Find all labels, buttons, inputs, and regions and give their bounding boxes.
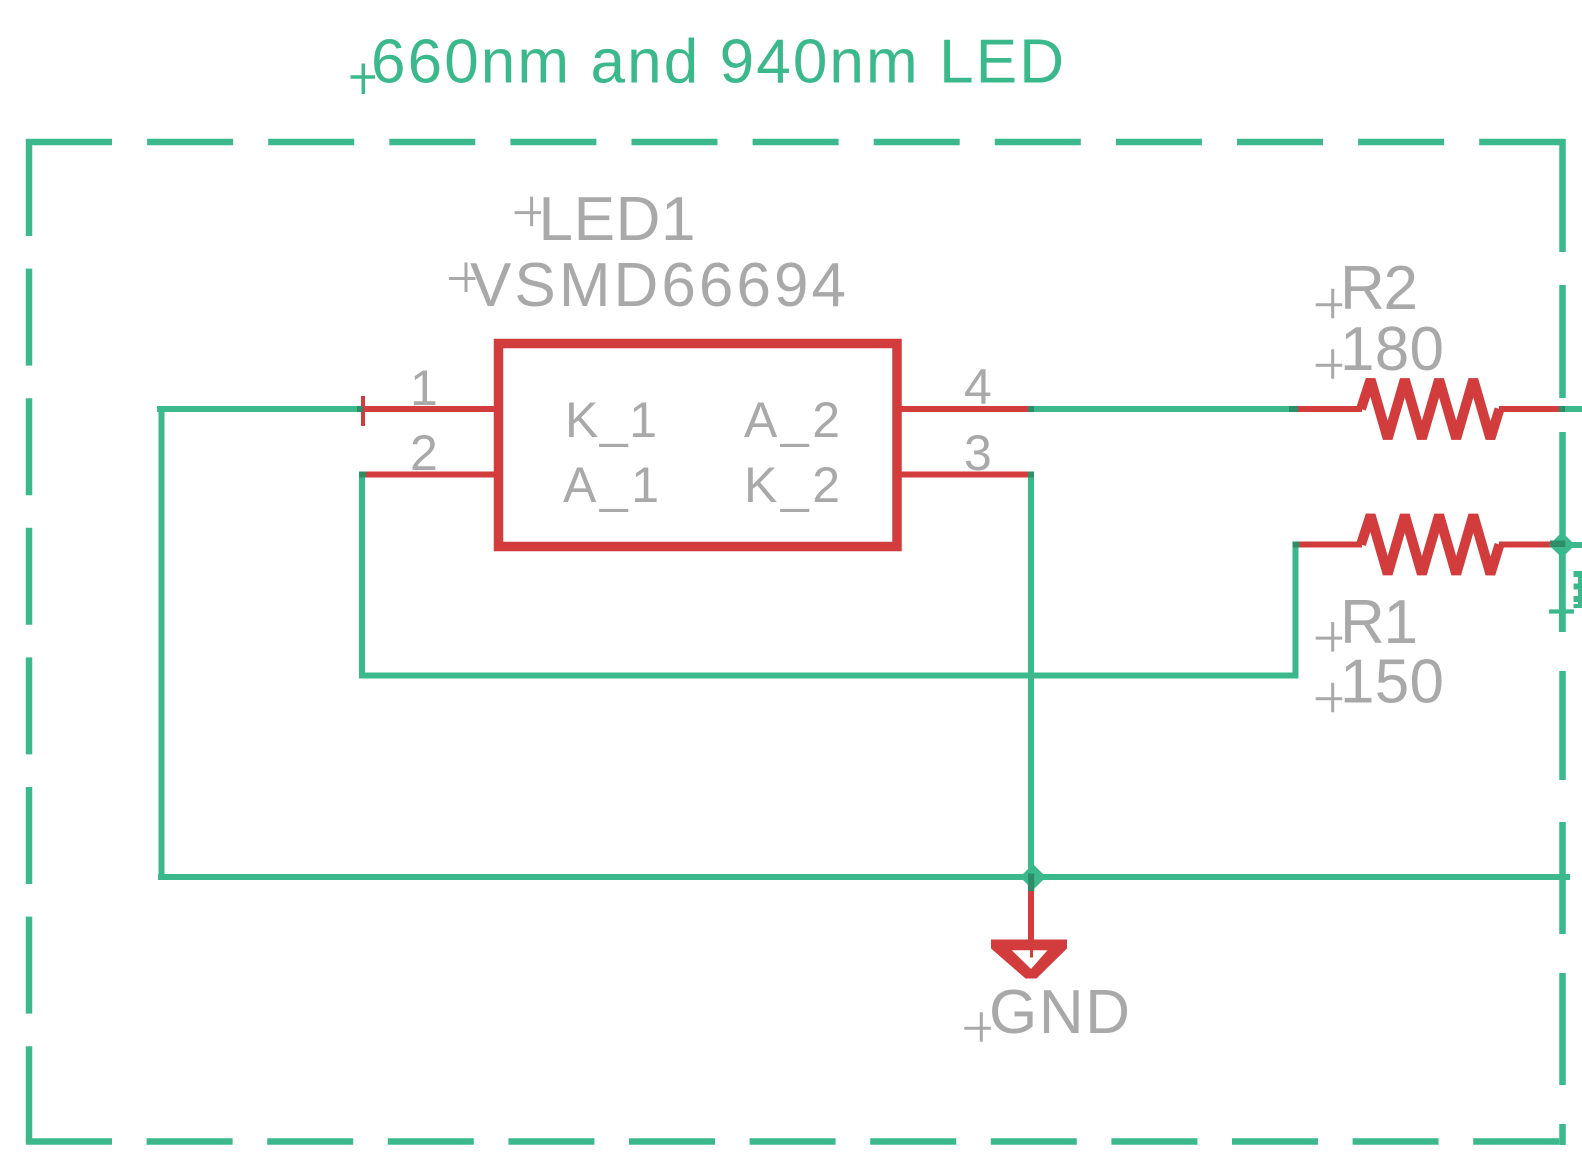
resistor R1 left lead xyxy=(1295,542,1362,548)
LED1 pin 4 wire xyxy=(897,406,1028,412)
wire pin2 vertical xyxy=(359,475,365,676)
wire up to R1 xyxy=(1293,545,1299,679)
wire pin1 to left rail xyxy=(157,406,363,412)
wire R1 junction to edge xyxy=(1562,542,1582,548)
wire net label stub xyxy=(1559,545,1565,632)
wire bottom rail horizontal xyxy=(158,874,1570,880)
LED1 pin 3 wire xyxy=(897,472,1033,478)
svg-text:2: 2 xyxy=(410,425,438,481)
ground wire stub xyxy=(1028,891,1034,944)
R1 value cross xyxy=(1316,683,1343,713)
R2 name cross xyxy=(1316,289,1343,319)
LED1 body rectangle xyxy=(499,344,898,547)
svg-text:K_1: K_1 xyxy=(565,392,657,448)
frame border right edge xyxy=(1559,139,1566,1145)
svg-text:3: 3 xyxy=(964,425,992,481)
net label cross xyxy=(1549,596,1574,628)
resistor R1 zigzag xyxy=(1361,515,1500,574)
svg-text:660nm and 940nm LED: 660nm and 940nm LED xyxy=(371,28,1064,97)
svg-text:1: 1 xyxy=(410,360,438,416)
wire overlap mark R2 left xyxy=(1289,406,1298,412)
junction dot on bottom rail xyxy=(1020,864,1046,890)
wire left rail vertical xyxy=(159,409,165,877)
title origin cross xyxy=(351,64,376,95)
ground symbol triangle inner xyxy=(1010,949,1049,970)
wire R2 right to edge xyxy=(1559,406,1582,412)
frame border left edge xyxy=(26,139,33,1145)
junction R1 overlap dark xyxy=(1550,541,1565,548)
svg-text:4: 4 xyxy=(964,359,992,415)
resistor R2 right lead xyxy=(1499,406,1562,412)
GND label cross xyxy=(964,1012,991,1042)
resistor R1 right lead xyxy=(1499,542,1559,548)
junction overlap dark xyxy=(1028,874,1034,892)
LED1 pin 2 wire xyxy=(364,472,498,478)
resistor R2 left lead xyxy=(1292,406,1362,412)
LED1 pin 1 connection cross xyxy=(361,396,365,426)
wire overlap mark R1 left xyxy=(1293,542,1300,548)
wire overlap mark pin1 xyxy=(357,406,363,412)
svg-text:180: 180 xyxy=(1340,315,1444,384)
frame border bottom edge xyxy=(26,1138,1560,1145)
net label partial text xyxy=(1574,571,1582,608)
resistor R2 zigzag xyxy=(1361,380,1500,439)
wire overlap mark R2 right xyxy=(1559,406,1565,412)
wire pin4 to R2 xyxy=(1028,406,1292,412)
svg-text:LED1: LED1 xyxy=(539,185,696,254)
svg-text:K_2: K_2 xyxy=(744,457,840,513)
svg-text:150: 150 xyxy=(1340,647,1444,716)
wire pin2 horizontal xyxy=(359,673,1299,679)
wire overlap mark pin3 xyxy=(1028,472,1034,478)
LED1 name cross xyxy=(515,197,542,227)
junction diamond R1 net xyxy=(1549,532,1575,558)
LED1 value cross xyxy=(449,263,476,293)
svg-text:A_1: A_1 xyxy=(563,457,659,513)
wire overlap mark pin2 xyxy=(359,472,366,478)
wire pin3 vertical xyxy=(1028,475,1034,892)
svg-text:VSMD66694: VSMD66694 xyxy=(470,251,846,320)
svg-text:R2: R2 xyxy=(1340,254,1418,323)
R2 value cross xyxy=(1316,349,1343,379)
frame border top edge xyxy=(26,139,1565,146)
LED1 pin 1 wire xyxy=(361,406,498,412)
svg-text:A_2: A_2 xyxy=(744,392,840,448)
R1 name cross xyxy=(1316,622,1343,652)
ground symbol triangle xyxy=(991,940,1067,979)
ground pin cross xyxy=(1010,940,1049,958)
wire overlap mark pin4 xyxy=(1028,406,1034,412)
svg-text:GND: GND xyxy=(989,978,1130,1047)
